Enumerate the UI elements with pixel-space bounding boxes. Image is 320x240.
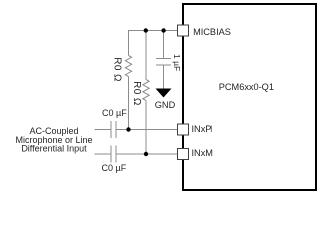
- svg-text:INxM: INxM: [192, 148, 213, 158]
- svg-text:Differential Input: Differential Input: [21, 144, 87, 154]
- svg-text:PCM6xx0-Q1: PCM6xx0-Q1: [219, 82, 274, 92]
- svg-text:MICBIAS: MICBIAS: [193, 27, 231, 37]
- svg-text:C0 µF: C0 µF: [102, 108, 127, 118]
- svg-text:C0 µF: C0 µF: [102, 163, 127, 173]
- svg-text:INxP: INxP: [192, 124, 212, 134]
- svg-text:R0 Ω: R0 Ω: [131, 81, 142, 106]
- svg-text:1 µF: 1 µF: [172, 54, 182, 71]
- svg-text:R0 Ω: R0 Ω: [111, 57, 122, 82]
- svg-text:GND: GND: [155, 100, 176, 110]
